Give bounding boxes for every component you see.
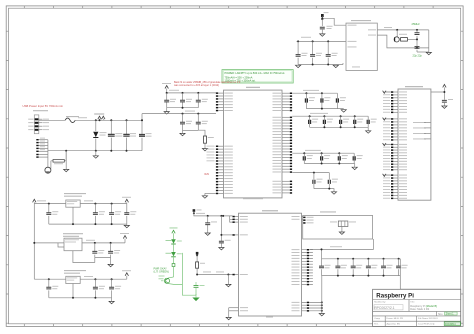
title block outline (373, 289, 461, 326)
capacitor C17 (46, 204, 58, 225)
connector S2 left pins group 4 (383, 174, 407, 199)
title block title cell (410, 301, 437, 312)
power arrow (RG1 in) (33, 199, 36, 202)
wire RG3 output rail (80, 276, 127, 280)
svg-text:File Name 2012/001: File Name 2012/001 (418, 318, 438, 320)
svg-text:Comp: Comp (374, 318, 381, 320)
power arrow (RG1 out) (122, 197, 131, 204)
power arrow (I2C net) (193, 209, 202, 216)
power arrow (S2 group 3) (383, 143, 391, 146)
svg-text:Title:: Title: (410, 301, 415, 304)
capacitor C10 (left) (139, 114, 152, 151)
connector S2 body (398, 89, 431, 200)
regulator RG2b (64, 238, 82, 251)
svg-text:Raspberry Pi [Model B]: Raspberry Pi [Model B] (410, 304, 437, 308)
svg-text:Issue/PDM verify: Issue/PDM verify (418, 323, 435, 326)
transistor Q5 (green) (159, 276, 174, 284)
wire group3 top rail (292, 150, 354, 154)
crystal X2 (330, 221, 356, 227)
wire +5V rail (USB) (39, 117, 142, 121)
ground (group4) (331, 192, 336, 194)
IC2 right pins lower (273, 181, 293, 194)
ground (RG2 rail left) (296, 65, 301, 67)
capacitor bank row 3 (303, 153, 362, 164)
ground (IC2) (202, 193, 207, 198)
power flag (R18 net) (196, 252, 199, 257)
IC2 right pins group A (273, 93, 293, 112)
wire crystal right leg (417, 30, 429, 52)
IC3 bottom label (266, 316, 273, 319)
ground (row1) (164, 108, 169, 114)
svg-text:USB Power Input 5V 700mA min: USB Power Input 5V 700mA min (23, 104, 64, 108)
resistor R1 (198, 130, 214, 148)
wire group2 top rail (292, 113, 368, 117)
capacitor C8 (180, 93, 192, 108)
wire LAN reset net (196, 272, 232, 276)
connector S2 left pins group 3 (383, 144, 407, 171)
regulator RG2b label (63, 233, 83, 236)
red note text (174, 81, 241, 87)
wire RG2b output rail (82, 240, 125, 244)
connector S2 left pins group 1 (383, 91, 407, 113)
capacitor C13 (442, 99, 453, 108)
svg-text:Date: Mark 2 R2: Date: Mark 2 R2 (410, 307, 429, 311)
capacitor C4 (326, 41, 338, 64)
title block size row (438, 312, 457, 316)
IC2 BCM2835 body (224, 90, 283, 198)
IC3 left pin mid (233, 274, 248, 276)
svg-text:22p 22p: 22p 22p (413, 53, 423, 57)
power arrow (S2 group 2) (383, 118, 391, 121)
wire RG1 input (34, 200, 66, 204)
wire I2C bus (194, 213, 233, 217)
wire RG1 ground rail (49, 207, 127, 225)
svg-text:(LIT: GREEN): (LIT: GREEN) (154, 271, 169, 274)
power arrow (S2 top right) (431, 84, 446, 99)
LED D5 (green) (166, 239, 182, 244)
capacitor C27 (328, 173, 338, 189)
capacitor C6 (load cap) (415, 38, 420, 52)
regulator IC1 RG2 (346, 20, 377, 70)
capacitor C9 (196, 93, 208, 108)
capacitor C24 (93, 279, 105, 298)
capacitor C11 (180, 114, 192, 131)
ground (RG2b) (108, 264, 113, 266)
power flag (LED chain, green) (170, 228, 178, 240)
X2 box left pins (303, 217, 313, 224)
capacitor C26 (313, 173, 323, 189)
wire group4 rail (292, 172, 329, 174)
capacitor C23 (46, 279, 58, 298)
wire rail row2 (142, 111, 216, 115)
capacitor C7 (164, 93, 176, 108)
capacitor C19 (109, 204, 121, 225)
wire caps row bottom rail (322, 275, 401, 277)
capacitor bank bottom right (319, 259, 408, 276)
wire USB pair 1 (310, 239, 373, 249)
capacitor C16 (green) (194, 282, 205, 290)
svg-text:POWER: LAN/PHY up to 500 mA -: POWER: LAN/PHY up to 500 mA - MAX IO 750… (225, 72, 286, 75)
wire RG2 ground rail (298, 63, 343, 66)
capacitor C14 (205, 216, 217, 229)
ground (RG2 rail right) (333, 65, 338, 67)
svg-text:DOC8814: DOC8814 (445, 323, 456, 326)
regulator RG1 (66, 200, 80, 207)
wire IC3 pin2 jog (230, 216, 233, 222)
ground (USB section) (64, 151, 69, 172)
power arrow (S2 group 1) (383, 91, 391, 94)
svg-text:Sheet 1: Sheet 1 (446, 313, 455, 316)
capacitor C21 (92, 243, 104, 258)
wire USB pair 2 (321, 248, 323, 258)
wire RG1 output rail (80, 200, 127, 204)
crystal X1 circle (394, 30, 399, 42)
connector S2 label (405, 86, 423, 87)
wire caps row right leg (400, 259, 460, 289)
wire group4 bottom (314, 188, 334, 192)
ground (row2) (180, 130, 185, 135)
IC3 LAN9512 label (262, 210, 278, 211)
capacitor C15 (219, 216, 233, 248)
power arrow (RG2b out) (120, 233, 129, 243)
IC2 left pins group 1 (216, 92, 233, 111)
connector J1 shield pins (36, 138, 48, 168)
capacitor bank row 2 (309, 116, 377, 128)
power arrow (RG3 out) (122, 270, 131, 279)
ferrite bead L2 (51, 151, 66, 169)
ground (group3) (352, 164, 357, 170)
ground (crystal) (426, 52, 431, 54)
capacitor C2 220u (108, 120, 122, 150)
IC2 ground pin wire (205, 192, 216, 194)
capacitor C5 (load cap) (415, 30, 420, 40)
svg-text:Raspberry Pi: Raspberry Pi (376, 293, 414, 300)
ground (C15) (219, 248, 224, 250)
green note text PWR OKAY (154, 268, 169, 274)
ground (IC3 bottom left) (226, 317, 231, 319)
svg-text:25MHz: 25MHz (412, 22, 421, 26)
wire rail row1 (166, 90, 216, 94)
wire rail RG2 input net (297, 37, 347, 43)
wire green net (169, 253, 196, 295)
connector J1 micro USB label (33, 109, 48, 112)
resistor R18 (196, 255, 205, 274)
ground (D17 column) (93, 151, 98, 159)
junction (+5V rail end) (141, 119, 143, 121)
regulator RG3 (66, 276, 80, 283)
capacitor C20 (124, 204, 136, 225)
wire left bus (33, 204, 35, 280)
IC2 right pins group B (273, 117, 293, 173)
capacitor C12 (196, 114, 208, 131)
regulator RG3 label (64, 270, 86, 273)
svg-text:Drawn JA GL PR: Drawn JA GL PR (387, 317, 404, 320)
power flag (decoupling row 1) (162, 83, 171, 93)
connector J1 pins (28, 118, 49, 131)
ground (X2) (339, 227, 344, 235)
svg-text:Modified by:: Modified by: (374, 302, 386, 304)
ground (C14) (205, 229, 210, 235)
IC3 right pins mid group (292, 249, 313, 285)
wire row1 bottom (167, 107, 199, 109)
wire RG3 input (34, 278, 66, 280)
LED D6 (green) (166, 245, 182, 257)
ground (near IC3 left) (226, 275, 231, 287)
crystal X1 body (399, 34, 417, 41)
test point TP1 TP2 (94, 114, 105, 121)
S2 right net labels (413, 122, 431, 139)
wire IC3 lower bus (321, 276, 323, 314)
X2 shield box (303, 216, 373, 240)
wire RG2 output 1 (377, 27, 429, 31)
ground (RG3) (109, 298, 114, 304)
IC3 left pins top (233, 216, 248, 223)
ground below C1 (320, 29, 325, 36)
connector J1 body (34, 115, 39, 134)
IC2 BCM2835 label (246, 87, 260, 88)
title block bottom rows (374, 317, 438, 326)
IC3 bottom-left pins (229, 307, 248, 317)
IC3 left pin nRESET (233, 234, 248, 236)
USB shell symbol (45, 167, 51, 173)
wire RG2b ground (73, 251, 111, 265)
capacitor C22 (108, 243, 120, 258)
ground (group1) (341, 110, 346, 112)
capacitor C25 (109, 279, 121, 298)
connector S2 left pins group 2 (383, 118, 407, 141)
wire row2 bottom (183, 129, 199, 131)
IC3 bottom-right pins (292, 301, 323, 311)
svg-text:was connected to +3V3 at layer: was connected to +3V3 at layer 1 (2012) (174, 84, 219, 87)
IC2 bottom label (243, 197, 263, 200)
wire group1 top rail (292, 90, 337, 94)
svg-text:R.S.: R.S. (374, 324, 379, 326)
regulator RG1 label (64, 193, 86, 196)
capacitor C1 (RG2 input) (320, 26, 333, 29)
wire RG2 output 2 (377, 35, 429, 49)
ground (group2) (366, 127, 371, 133)
capacitor C3u (123, 120, 136, 150)
IC3 LAN9512 body (239, 213, 302, 316)
svg-text:Appvd by: BN: Appvd by: BN (387, 323, 401, 326)
X2 box label (320, 211, 336, 214)
ground (R1) (202, 149, 207, 151)
wire USB ground rail (48, 150, 142, 152)
capacitor C2 (296, 41, 308, 64)
diode D17 (93, 120, 106, 150)
svg-text:Size: Size (438, 313, 443, 316)
power flag +5V (top of RG2 section) (321, 12, 329, 20)
title block modified-by cell (374, 302, 403, 310)
capacitor bank row 1 (305, 93, 346, 109)
fuse F3 (65, 116, 79, 122)
wire RG3 ground rail (49, 284, 112, 299)
title block doc number (green) (444, 322, 460, 326)
IC2 left pins group 2 (207, 146, 233, 195)
wire from +5V flag to RG2 VIN (321, 16, 346, 26)
svg-text:RPC0027/2.1: RPC0027/2.1 (374, 306, 394, 310)
power arrow (S2 group 4) (383, 174, 391, 177)
capacitor C3 (310, 41, 322, 64)
IC3 right pins top (292, 216, 310, 220)
ground (IC3 lower bus) (319, 314, 324, 316)
wire RG2b input (33, 242, 64, 247)
svg-text:R29: R29 (205, 173, 210, 176)
resistor R16 (green) (172, 257, 175, 277)
capacitor C18 tantalum (93, 204, 105, 225)
ground (RG1) (124, 224, 129, 228)
ground (green, C16) (193, 294, 199, 301)
wire caps row top rail (322, 258, 401, 260)
note box (green) (222, 70, 293, 83)
